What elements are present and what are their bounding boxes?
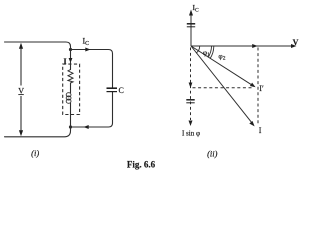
dashed box around R-L branch [63, 64, 80, 114]
wire capacitor branch upper [112, 54, 114, 88]
tick mark on Ic axis [187, 24, 195, 27]
phasor I [191, 46, 252, 122]
arrowhead mid on V axis [252, 44, 257, 48]
arrowhead down at I sin phi end [189, 121, 193, 127]
svg-text:I sin φ: I sin φ [182, 130, 200, 138]
svg-text:I′: I′ [259, 84, 264, 93]
wire inside box above resistor [70, 63, 72, 70]
wire top from source to node A [5, 42, 71, 48]
wire below inductor to node B [70, 103, 72, 127]
angle arc phi1 (inner, V axis to I) [196, 46, 200, 53]
dashed horizontal from I sin axis to I' tip [193, 87, 253, 89]
inductor L (coil loops) [66, 93, 71, 104]
phasor I' [191, 46, 252, 85]
arrowhead Ic [189, 10, 193, 16]
svg-text:(i): (i) [31, 148, 39, 158]
svg-text:V: V [18, 86, 24, 95]
svg-text:V: V [293, 38, 299, 47]
arrow I on branch wire (pointing down) [69, 58, 73, 63]
wire between resistor and inductor [70, 83, 72, 93]
svg-text:IC: IC [83, 37, 90, 48]
angle arc phi2 (outer double, V axis to I') [208, 46, 211, 57]
wire branch I (node A into box) [70, 50, 72, 59]
node B junction dot [69, 125, 72, 128]
svg-text:φ1: φ1 [203, 48, 210, 58]
arrow on bottom return wire (pointing left) [84, 125, 89, 129]
voltage arrow V (double headed) [19, 43, 23, 136]
capacitor C plates [107, 88, 118, 91]
arrowhead down at I' level [189, 83, 193, 89]
wire Ic top (node A to capacitor branch) [71, 50, 113, 54]
arrow Ic on top wire [85, 48, 90, 52]
dashed vertical I sin phi axis [190, 48, 192, 121]
svg-text:φ2: φ2 [218, 51, 225, 61]
svg-text:Fig. 6.6: Fig. 6.6 [127, 159, 156, 169]
svg-text:I: I [259, 126, 262, 135]
resistor R (zigzag) [68, 70, 73, 84]
tick mark on I sin phi axis [186, 100, 194, 103]
axis V horizontal [191, 45, 295, 47]
svg-text:C: C [119, 86, 124, 95]
svg-text:IC: IC [193, 3, 200, 14]
wire node B down to bottom wire [5, 127, 71, 137]
axis Ic vertical [190, 13, 192, 46]
arrowhead V end [291, 44, 297, 48]
wire capacitor branch lower [112, 92, 114, 123]
svg-text:I: I [64, 57, 67, 66]
wire Ic bottom return (capacitor to node B) [71, 123, 113, 127]
dashed vertical from V axis to I tip [257, 48, 259, 125]
node A junction dot [69, 48, 72, 51]
label V (underlined) [17, 86, 26, 97]
svg-text:(ii): (ii) [207, 149, 218, 159]
